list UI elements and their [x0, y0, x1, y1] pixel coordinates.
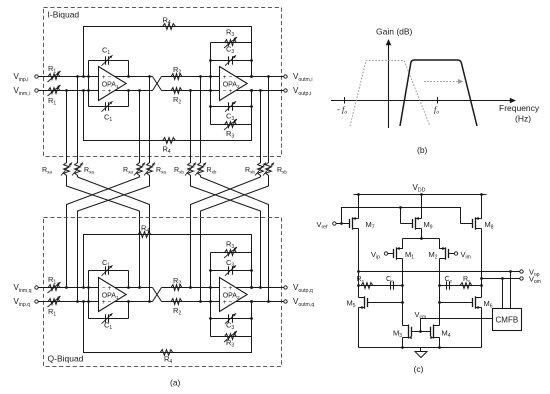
wire M2 drain column down — [439, 272, 441, 326]
wire cross inner-left 200.5 to 268.5 — [201, 177, 269, 302]
wire M9 drain to tail node — [421, 229, 423, 239]
ground symbol — [420, 348, 422, 352]
svg-text:+ −: + − — [223, 299, 233, 306]
wire M6 source down — [481, 308, 483, 348]
wire M8 drain column down — [481, 229, 483, 298]
wire X-cross swap q — [153, 288, 162, 302]
resistor R4 top i — [161, 24, 177, 30]
wire I-biquad to Rxa column 77.5 — [77, 77, 79, 162]
plot b solid bandpass trapezoid — [400, 60, 477, 126]
capacitor Cc left — [390, 281, 392, 289]
resistor Rc right — [459, 283, 474, 289]
wire output Vom line — [482, 278, 520, 280]
resistor Rxa 139.5 — [137, 161, 143, 177]
wire Vop sense to CMFB — [510, 272, 512, 309]
resistor Rxa 149.5 — [147, 161, 153, 177]
wire I-biquad to Rxb column 190.5 — [190, 91, 192, 162]
resistor Rc left — [360, 283, 375, 289]
svg-text:(a): (a) — [170, 378, 181, 388]
op-amp OPA2 i — [220, 67, 248, 101]
resistor R2 bottom q — [170, 299, 184, 305]
plot b tick fo — [437, 97, 439, 104]
wire I-biquad to Rxb column 268.5 — [268, 77, 270, 162]
wire I-biquad to Rxb column 200.5 — [200, 77, 202, 162]
resistor Rxa 66.5 — [64, 161, 70, 177]
wire bottom rail q input section — [37, 301, 153, 303]
capacitor C1 top q — [105, 266, 107, 274]
wire M3 gate — [412, 331, 421, 333]
capacitor C1 bottom i — [105, 102, 107, 110]
resistor R1 bottom input i — [47, 88, 62, 94]
wire top rail i R2 to output — [162, 76, 286, 78]
svg-text:Q-Biquad: Q-Biquad — [48, 354, 84, 364]
output terminal Voutp,q — [284, 286, 287, 289]
wire M1 drain column down — [402, 272, 404, 326]
input terminal Vinp,i — [35, 75, 38, 78]
block CMFB — [493, 309, 522, 331]
wire R4 feedback top loop i — [84, 27, 252, 77]
wire top rail q input section — [37, 287, 153, 289]
resistor R4 bottom q — [159, 350, 175, 356]
input terminal Vinp,q — [35, 300, 38, 303]
wire Vom sense to CMFB — [502, 279, 504, 309]
node Vcm CMFB output to M3 M4 gates — [421, 319, 493, 332]
svg-text:− +: − + — [102, 88, 112, 95]
wire bottom rail i input section — [37, 90, 153, 92]
wire M7 drain column down — [358, 229, 360, 298]
wire cross outer-right 268.5 to 200.5 — [201, 177, 269, 302]
svg-text:(Hz): (Hz) — [515, 114, 531, 124]
ground rail bottom — [359, 347, 482, 349]
wire R4 feedback top loop q — [84, 235, 252, 288]
wire cross inner-right 260.5 to 190.5 — [191, 177, 261, 288]
resistor R1 bottom input q — [47, 299, 62, 305]
resistor R3 bottom i — [223, 122, 238, 128]
resistor Rxb 260.5 — [258, 161, 264, 177]
resistor R1 top input q — [47, 285, 62, 291]
resistor R2 bottom i — [170, 88, 184, 94]
wire M4 gate — [421, 331, 431, 333]
wire top rail i input section — [37, 76, 153, 78]
resistor R3 bottom q — [223, 334, 238, 340]
wire cross inner-right 139.5 to 66.5 — [67, 177, 140, 288]
wire M5 gate to M1 drain — [368, 302, 403, 304]
output terminal Voutm,q — [284, 300, 287, 303]
svg-text:(c): (c) — [414, 364, 424, 374]
Q-Biquad dashed enclosure box — [44, 218, 282, 367]
wire cross outer-left 190.5 to 260.5 — [191, 177, 261, 288]
wire C1 feedback box i — [88, 61, 90, 107]
resistor Rxb 268.5 — [266, 161, 272, 177]
plot b dashed lowpass trapezoid — [350, 61, 430, 127]
svg-text:Frequency: Frequency — [499, 103, 540, 113]
resistor R4 top q — [137, 232, 153, 238]
wire I-biquad to Rxa column 66.5 — [66, 91, 68, 162]
wire cross outer-right 149.5 to 77.5 — [78, 177, 150, 302]
VDD supply rail — [354, 194, 487, 196]
transistor M2 — [440, 239, 446, 249]
resistor Rxa 77.5 — [75, 161, 81, 177]
capacitor C3 top q — [228, 266, 230, 274]
wire I-biquad to Rxb column 260.5 — [260, 91, 262, 162]
resistor R3 top i — [223, 40, 238, 46]
wire top rail q R2 to output — [162, 287, 286, 289]
capacitor Cc right — [446, 281, 448, 289]
resistor R3 top q — [223, 250, 238, 256]
resistor Rxb 200.5 — [198, 161, 204, 177]
wire output Vop line — [359, 271, 520, 273]
resistor R2 top i — [170, 74, 184, 80]
transistor M3 — [403, 325, 409, 327]
plot b dotted shift arrow — [424, 81, 460, 83]
op-amp OPA1 q — [99, 278, 127, 312]
op-amp OPA2 q — [220, 278, 248, 312]
capacitor C1 top i — [105, 56, 107, 64]
wire R4 feedback bottom loop i — [84, 91, 252, 141]
wire I-biquad to Rxa column 139.5 — [139, 91, 141, 162]
input terminal Vinm,q — [35, 286, 38, 289]
output terminal Voutp,i — [284, 89, 287, 92]
svg-text:− +: − + — [223, 285, 233, 292]
wire M3 source to rail — [402, 338, 404, 348]
terminal Vip — [384, 252, 387, 255]
output terminal Voutm,i — [284, 75, 287, 78]
transistor M1 — [397, 239, 403, 249]
wire M6 gate to M2 drain — [440, 302, 473, 304]
op-amp OPA1 i — [99, 67, 127, 101]
terminal Vim — [454, 252, 457, 255]
svg-text:(b): (b) — [417, 145, 428, 155]
input terminal Vinm,i — [35, 89, 38, 92]
capacitor C1 bottom q — [105, 314, 107, 322]
wire R3 C3 feedback box q — [210, 253, 212, 337]
svg-text:I-Biquad: I-Biquad — [48, 10, 80, 20]
terminal Vref — [333, 222, 336, 225]
wire left compensation branch — [359, 285, 403, 287]
svg-text:+ −: + − — [102, 299, 112, 306]
svg-text:+ −: + − — [102, 74, 112, 81]
plot b tick -fo — [344, 97, 346, 104]
wire C1 feedback box q — [88, 271, 90, 319]
wire M5 source down — [358, 308, 360, 348]
capacitor C3 bottom q — [228, 314, 230, 322]
transistor M4 — [434, 325, 440, 327]
wire bottom rail i R2 to output — [162, 90, 286, 92]
wire I-biquad to Rxa column 149.5 — [149, 77, 151, 162]
transistor M6 — [476, 297, 482, 299]
wire M4 source to rail — [439, 338, 441, 348]
svg-text:Gain (dB): Gain (dB) — [376, 27, 413, 37]
capacitor C3 bottom i — [228, 102, 230, 110]
transistor M9 — [416, 218, 422, 220]
plot b x-axis Frequency — [331, 100, 513, 102]
svg-text:− +: − + — [223, 88, 233, 95]
transistor M8 — [476, 218, 482, 220]
wire cross outer-left 66.5 to 139.5 — [67, 177, 140, 288]
svg-text:− +: − + — [102, 285, 112, 292]
wire bottom rail q R2 to output — [162, 301, 286, 303]
resistor R1 top input i — [47, 74, 62, 80]
plot b y-axis Gain — [388, 42, 390, 128]
wire R3 C3 feedback box i — [210, 43, 212, 125]
resistor Rxb 190.5 — [188, 161, 194, 177]
terminal Vop — [520, 270, 523, 273]
wire right compensation branch — [440, 285, 482, 287]
wire bias line M7 M9 M8 gates — [342, 208, 461, 224]
transistor M7 — [353, 218, 359, 220]
terminal Vom — [520, 277, 523, 280]
wire X-cross swap i — [153, 77, 162, 91]
resistor R4 bottom i — [161, 138, 177, 144]
wire R4 feedback bottom loop q — [84, 302, 252, 353]
transistor M5 — [359, 297, 365, 299]
svg-text:CMFB: CMFB — [496, 316, 519, 325]
resistor R2 top q — [170, 285, 184, 291]
wire cross inner-left 77.5 to 149.5 — [78, 177, 150, 302]
I-Biquad dashed enclosure box — [44, 8, 282, 157]
svg-text:+ −: + − — [223, 74, 233, 81]
capacitor C3 top i — [228, 56, 230, 64]
